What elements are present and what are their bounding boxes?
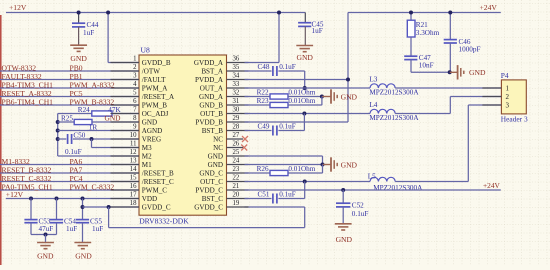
wire net OTW-8332 bbox=[0, 70, 139, 72]
svg-text:OC_ADJ: OC_ADJ bbox=[142, 110, 169, 118]
svg-text:GND_C: GND_C bbox=[199, 170, 223, 178]
wire cap tie bbox=[31, 234, 57, 236]
wire L5 out bbox=[395, 181, 468, 183]
svg-text:OUT_C: OUT_C bbox=[200, 178, 223, 186]
wire C48 riser bbox=[304, 71, 306, 88]
svg-text:0.01Ohm: 0.01Ohm bbox=[288, 89, 315, 97]
svg-text:0.1uF: 0.1uF bbox=[65, 148, 82, 156]
U8 pin 18 (GVDD_C) bbox=[111, 200, 171, 212]
svg-text:3: 3 bbox=[133, 73, 137, 80]
U8 pin 29 (PVDD_B) bbox=[195, 115, 248, 127]
U8 pin 17 (VDD) bbox=[111, 192, 158, 204]
svg-text:1uF: 1uF bbox=[66, 225, 77, 233]
U8 pin 12 (M2) bbox=[111, 149, 153, 161]
U8 pin 6 (PWM_B) bbox=[111, 98, 168, 110]
wire R21 to C47 bbox=[410, 37, 412, 56]
wire C51 riser bbox=[304, 182, 306, 199]
svg-text:L3: L3 bbox=[369, 75, 377, 83]
P4 pin 1 bbox=[482, 85, 509, 93]
svg-text:R25: R25 bbox=[61, 114, 73, 122]
resistor R21 bbox=[407, 20, 439, 37]
U8 pin 10 (VREG) bbox=[111, 132, 162, 144]
wire C44 drop bbox=[78, 13, 80, 24]
svg-text:1uF: 1uF bbox=[92, 225, 103, 233]
junction bbox=[409, 11, 413, 15]
U8 pin 28 (BST_B) bbox=[202, 124, 249, 136]
svg-text:4: 4 bbox=[133, 81, 137, 88]
junction bbox=[44, 233, 48, 237]
svg-text:/RESET_B: /RESET_B bbox=[142, 170, 174, 178]
wire AGND pin9 bbox=[58, 130, 139, 132]
U8 pin 34 (PVDD_A) bbox=[195, 73, 248, 85]
wire C53 drop bbox=[30, 199, 32, 220]
U8 pin 2 (/OTW) bbox=[111, 64, 161, 76]
svg-text:PWM_C: PWM_C bbox=[142, 187, 167, 195]
svg-text:GND: GND bbox=[336, 235, 353, 244]
svg-text:MPZ2012S300A: MPZ2012S300A bbox=[369, 114, 419, 122]
svg-text:PVDD_C: PVDD_C bbox=[195, 187, 223, 195]
wire OUT_A bbox=[245, 87, 371, 89]
svg-text:1: 1 bbox=[133, 56, 136, 63]
svg-text:3.3Ohm: 3.3Ohm bbox=[416, 29, 440, 37]
ground (C55) bbox=[74, 243, 92, 261]
junction bbox=[81, 197, 85, 201]
resistor R26 bbox=[257, 165, 316, 176]
svg-text:GND: GND bbox=[208, 161, 223, 169]
ground GND (pins 23-25) bbox=[331, 157, 358, 171]
wire +24V rail bbox=[348, 12, 501, 14]
junction bbox=[320, 95, 324, 99]
wire PVDD_C bbox=[245, 189, 501, 191]
U8 pin 27 (NC) bbox=[213, 132, 243, 144]
wire net PB4-TIM3_CH1 bbox=[0, 87, 139, 89]
svg-text:GND_B: GND_B bbox=[199, 102, 223, 110]
wire stub to ground bar bbox=[322, 96, 331, 98]
junction bbox=[107, 205, 111, 209]
svg-text:/OTW: /OTW bbox=[142, 68, 160, 76]
svg-text:24: 24 bbox=[233, 158, 240, 165]
U8 pin 8 (GND) bbox=[111, 115, 158, 127]
svg-text:GND: GND bbox=[341, 93, 358, 102]
wire riser pin11 bbox=[91, 139, 93, 148]
svg-text:OUT_A: OUT_A bbox=[200, 85, 224, 93]
svg-text:PWM_C-8332: PWM_C-8332 bbox=[70, 182, 115, 191]
junction bbox=[448, 70, 452, 74]
wire BST_C bbox=[245, 198, 272, 200]
inductor L3 bbox=[369, 75, 419, 96]
svg-text:BST_A: BST_A bbox=[201, 68, 224, 76]
junction bbox=[341, 188, 345, 192]
resistor R25 bbox=[61, 114, 97, 131]
U8 pin 26 (NC) bbox=[213, 141, 243, 153]
svg-text:32: 32 bbox=[233, 90, 240, 97]
svg-text:PB6-TIM4_CH1: PB6-TIM4_CH1 bbox=[2, 97, 54, 106]
wire C55 drop bbox=[82, 199, 84, 220]
wire to P4.3 bbox=[468, 104, 501, 106]
svg-text:33: 33 bbox=[233, 81, 240, 88]
svg-text:MPZ2012S300A: MPZ2012S300A bbox=[369, 89, 419, 97]
P4 pin 2 bbox=[482, 93, 509, 101]
capacitor C55 bbox=[76, 218, 103, 234]
wire R23 riser bbox=[321, 97, 323, 106]
wire C53 down bbox=[30, 223, 32, 235]
wire C47 down bbox=[410, 60, 412, 73]
svg-text:0.1uF: 0.1uF bbox=[279, 123, 296, 131]
capacitor C48 bbox=[258, 63, 296, 76]
svg-text:21: 21 bbox=[233, 183, 240, 190]
capacitor C45 bbox=[298, 20, 324, 35]
wire net RESET_A-8332 bbox=[0, 96, 139, 98]
svg-text:GND: GND bbox=[37, 251, 54, 260]
svg-text:MPZ2012S300A: MPZ2012S300A bbox=[373, 184, 423, 192]
svg-text:R21: R21 bbox=[416, 21, 428, 29]
wire C46 drop bbox=[449, 13, 451, 40]
svg-text:L5: L5 bbox=[368, 173, 376, 181]
wire +24V riser x348 bbox=[347, 13, 349, 123]
junction bbox=[55, 197, 59, 201]
svg-text:Header 3: Header 3 bbox=[501, 114, 528, 123]
junction bbox=[77, 11, 81, 15]
wire pin12 feed bbox=[58, 155, 139, 157]
U8 pin 16 (PWM_C) bbox=[111, 183, 168, 195]
svg-text:2: 2 bbox=[506, 93, 510, 101]
svg-text:18: 18 bbox=[130, 200, 137, 207]
svg-text:31: 31 bbox=[233, 98, 240, 105]
wire R25 left bbox=[58, 121, 74, 123]
svg-text:PVDD_B: PVDD_B bbox=[195, 119, 223, 127]
svg-text:35: 35 bbox=[233, 64, 240, 71]
svg-text:GND: GND bbox=[208, 153, 223, 161]
wire GND_A bbox=[245, 96, 271, 98]
U8 pin 9 (AGND) bbox=[111, 124, 163, 136]
wire stub to ground bar bbox=[450, 71, 458, 73]
svg-text:34: 34 bbox=[233, 73, 240, 80]
wire C45 to ground bbox=[304, 26, 306, 45]
wire C45 drop bbox=[304, 13, 306, 23]
junction bbox=[346, 78, 350, 82]
wire pin11 feed bbox=[92, 147, 140, 149]
wire gnd1 stub bbox=[45, 235, 47, 243]
svg-text:7: 7 bbox=[133, 107, 137, 114]
svg-text:/FAULT: /FAULT bbox=[142, 76, 166, 84]
svg-text:30: 30 bbox=[233, 107, 240, 114]
U8 pin 19 (GVDD_C) bbox=[194, 200, 248, 212]
P4 pin 3 bbox=[482, 102, 509, 110]
svg-text:6: 6 bbox=[133, 98, 137, 105]
U8 pin 31 (GND_B) bbox=[199, 98, 248, 110]
svg-text:26: 26 bbox=[233, 141, 240, 148]
wire C46 down bbox=[449, 43, 451, 72]
junction bbox=[448, 11, 452, 15]
capacitor C50 bbox=[65, 131, 86, 156]
svg-text:C50: C50 bbox=[73, 131, 85, 139]
svg-text:C52: C52 bbox=[352, 201, 364, 209]
wire GVDD_C U rise bbox=[304, 207, 306, 228]
junction bbox=[81, 205, 85, 209]
U8 pin 30 (OUT_B) bbox=[200, 107, 248, 119]
ground (C52) bbox=[335, 224, 353, 244]
capacitor C51 bbox=[258, 191, 296, 204]
svg-text:5: 5 bbox=[133, 90, 137, 97]
wire C50 to pin10 bbox=[73, 138, 139, 140]
svg-text:GVDD_C: GVDD_C bbox=[194, 204, 223, 212]
junction bbox=[56, 120, 60, 124]
U8 pin 20 (BST_C) bbox=[202, 192, 249, 204]
svg-text:15: 15 bbox=[130, 175, 137, 182]
wire L4 out bbox=[395, 113, 450, 115]
wire GND pin24 bbox=[245, 164, 323, 166]
svg-text:C48: C48 bbox=[258, 63, 270, 71]
junction bbox=[303, 180, 307, 184]
wire C55 down bbox=[82, 223, 84, 243]
ground GND (C46/C47) bbox=[458, 65, 486, 79]
wire +12V to VDD bbox=[6, 198, 139, 200]
wire net RESET_B-8332 bbox=[0, 172, 139, 174]
wire to P4.2 bbox=[450, 96, 501, 98]
wire R26 out bbox=[288, 172, 323, 174]
svg-text:10: 10 bbox=[130, 132, 137, 139]
svg-text:AGND: AGND bbox=[142, 127, 163, 135]
svg-text:PWM_B: PWM_B bbox=[142, 102, 167, 110]
svg-text:GND: GND bbox=[341, 161, 358, 170]
U8 pin 11 (M3) bbox=[111, 141, 153, 153]
svg-text:47uF: 47uF bbox=[39, 225, 54, 233]
wire C54 drop bbox=[56, 199, 58, 220]
U8 pin 22 (OUT_C) bbox=[200, 175, 248, 187]
svg-text:VREG: VREG bbox=[142, 136, 161, 144]
capacitor C52 bbox=[336, 201, 368, 218]
resistor R24 bbox=[78, 106, 122, 116]
svg-text:BST_B: BST_B bbox=[202, 127, 224, 135]
U8 pin 32 (GND_A) bbox=[199, 90, 249, 102]
U8 pin 5 (/RESET_A) bbox=[111, 90, 175, 102]
wire C48 out bbox=[278, 70, 304, 72]
wire R23 out bbox=[288, 104, 322, 106]
svg-text:R22: R22 bbox=[257, 89, 269, 97]
svg-text:R24: R24 bbox=[78, 106, 90, 114]
svg-text:1uF: 1uF bbox=[312, 27, 323, 35]
wire C44 to ground bbox=[78, 27, 80, 45]
svg-text:DRV8332-DDK: DRV8332-DDK bbox=[139, 216, 189, 225]
resistor R23 bbox=[257, 97, 316, 108]
svg-text:12: 12 bbox=[130, 149, 137, 156]
svg-text:1uF: 1uF bbox=[83, 29, 94, 37]
svg-text:0.1uF: 0.1uF bbox=[352, 210, 369, 218]
wire GVDD_A bbox=[245, 62, 280, 64]
no-connect X pin 26 bbox=[241, 145, 247, 151]
svg-text:1000pF: 1000pF bbox=[459, 46, 481, 54]
svg-text:29: 29 bbox=[233, 115, 240, 122]
svg-text:+24V: +24V bbox=[483, 181, 501, 190]
svg-text:+12V: +12V bbox=[6, 190, 24, 199]
svg-text:/RESET_A: /RESET_A bbox=[142, 93, 175, 101]
U8 pin 33 (OUT_A) bbox=[200, 81, 249, 93]
svg-text:GND: GND bbox=[70, 54, 87, 63]
svg-text:20: 20 bbox=[233, 192, 240, 199]
wire GVDD_C U drop bbox=[108, 207, 110, 228]
U8 pin 13 (M1) bbox=[111, 158, 153, 170]
U8 pin 35 (BST_A) bbox=[201, 64, 248, 76]
svg-text:U8: U8 bbox=[141, 45, 150, 54]
svg-text:R26: R26 bbox=[257, 165, 269, 173]
wire PVDD_A bbox=[245, 79, 349, 81]
wire C52 drop bbox=[342, 190, 344, 203]
svg-text:P4: P4 bbox=[501, 71, 509, 80]
svg-text:OUT_B: OUT_B bbox=[200, 110, 223, 118]
svg-text:9: 9 bbox=[133, 124, 137, 131]
capacitor C53 bbox=[24, 218, 53, 234]
wire net FAULT-8332 bbox=[0, 79, 139, 81]
U8 pin 23 (GND_C) bbox=[199, 166, 248, 178]
wire BST_A bbox=[245, 70, 272, 72]
wire C49 out bbox=[278, 130, 304, 132]
svg-text:2: 2 bbox=[133, 64, 137, 71]
U8 pin 7 (OC_ADJ) bbox=[111, 107, 169, 119]
U8 pin 4 (PWM_A) bbox=[111, 81, 169, 93]
svg-text:28: 28 bbox=[233, 124, 240, 131]
svg-text:19: 19 bbox=[233, 200, 240, 207]
wire R22 out bbox=[288, 96, 322, 98]
wire L4 riser bbox=[449, 97, 451, 114]
ground (C44) bbox=[70, 45, 87, 63]
wire OUT_C bbox=[245, 181, 371, 183]
svg-text:25: 25 bbox=[233, 149, 240, 156]
svg-text:3: 3 bbox=[506, 102, 510, 110]
capacitor C47 bbox=[404, 54, 433, 69]
resistor R22 bbox=[257, 89, 316, 100]
svg-text:PWM_A: PWM_A bbox=[142, 85, 168, 93]
svg-text:0.01Ohm: 0.01Ohm bbox=[288, 165, 315, 173]
svg-text:14: 14 bbox=[130, 166, 137, 173]
svg-text:GVDD_B: GVDD_B bbox=[142, 59, 171, 67]
svg-text:C51: C51 bbox=[258, 191, 270, 199]
junction bbox=[56, 129, 60, 133]
svg-text:L4: L4 bbox=[369, 101, 377, 109]
junction bbox=[56, 137, 60, 141]
svg-text:+12V: +12V bbox=[9, 3, 27, 12]
wire C51 out bbox=[278, 198, 304, 200]
U8 pin 36 (GVDD_A) bbox=[194, 56, 249, 68]
wire net PA0-TIM5_CH1 bbox=[0, 189, 139, 191]
svg-text:17: 17 bbox=[130, 192, 137, 199]
svg-text:C44: C44 bbox=[87, 21, 99, 29]
svg-text:11: 11 bbox=[130, 141, 137, 148]
svg-text:16: 16 bbox=[130, 183, 137, 190]
wire pin1 feed bbox=[108, 62, 139, 64]
wire C50 left bbox=[58, 138, 67, 140]
wire PVDD_B bbox=[245, 121, 349, 123]
svg-text:22: 22 bbox=[233, 175, 240, 182]
ground GND (R22/R23) bbox=[331, 89, 358, 103]
svg-text:0.1uF: 0.1uF bbox=[279, 191, 296, 199]
no-connect X pin 27 bbox=[242, 136, 248, 142]
wire OUT_B bbox=[245, 113, 371, 115]
capacitor C54 bbox=[50, 218, 77, 234]
svg-text:GND_A: GND_A bbox=[199, 93, 224, 101]
junction bbox=[321, 163, 325, 167]
svg-text:GVDD_C: GVDD_C bbox=[142, 204, 171, 212]
U8 pin 25 (GND) bbox=[208, 149, 249, 161]
U8 pin 24 (GND) bbox=[208, 158, 249, 170]
wire GVDD_C pin18 bbox=[83, 206, 140, 208]
junction bbox=[106, 11, 110, 15]
U8 pin 21 (PVDD_C) bbox=[195, 183, 248, 195]
svg-text:M2: M2 bbox=[142, 153, 152, 161]
svg-text:GVDD_A: GVDD_A bbox=[194, 59, 224, 67]
svg-text:0.1uF: 0.1uF bbox=[279, 63, 296, 71]
wire R24 to pin7 bbox=[112, 113, 139, 115]
wire GND pin25 bbox=[245, 155, 323, 157]
wire GND_B bbox=[245, 104, 271, 106]
wire pin25 riser bbox=[322, 156, 324, 165]
svg-text:36: 36 bbox=[233, 56, 240, 63]
wire +12V rail bbox=[6, 12, 305, 14]
wire GVDD_C U bottom bbox=[109, 227, 305, 229]
svg-text:M1: M1 bbox=[142, 161, 152, 169]
svg-text:M3: M3 bbox=[142, 144, 152, 152]
junction bbox=[302, 112, 306, 116]
svg-text:/RESET_C: /RESET_C bbox=[142, 178, 174, 186]
junction bbox=[303, 86, 307, 90]
svg-text:C49: C49 bbox=[258, 123, 270, 131]
wire C52 down bbox=[342, 207, 344, 224]
wire R21 top bbox=[410, 13, 412, 21]
svg-text:GND: GND bbox=[105, 113, 122, 122]
svg-text:GND: GND bbox=[142, 119, 157, 127]
U8 pin 14 (/RESET_B) bbox=[111, 166, 174, 178]
wire R26 riser bbox=[322, 165, 324, 174]
wire stub to ground bar bbox=[323, 164, 331, 166]
wire L5 riser bbox=[467, 105, 469, 182]
wire C54 down bbox=[56, 223, 58, 235]
capacitor C49 bbox=[258, 123, 296, 136]
svg-text:BST_C: BST_C bbox=[202, 195, 224, 203]
svg-text:PVDD_A: PVDD_A bbox=[195, 76, 224, 84]
svg-text:1: 1 bbox=[506, 85, 510, 93]
svg-text:NC: NC bbox=[213, 136, 223, 144]
svg-text:NC: NC bbox=[213, 144, 223, 152]
connector P4 body bbox=[501, 80, 526, 114]
U8 pin 1 (GVDD_B) bbox=[111, 56, 171, 68]
wire C49 riser bbox=[303, 114, 305, 131]
svg-text:13: 13 bbox=[130, 158, 137, 165]
svg-text:10nF: 10nF bbox=[419, 61, 434, 69]
svg-text:8: 8 bbox=[133, 115, 137, 122]
wire L3 to P4.1 bbox=[395, 87, 501, 89]
svg-text:23: 23 bbox=[233, 166, 240, 173]
wire pin19 feed bbox=[245, 206, 305, 208]
inductor L5 bbox=[368, 173, 423, 193]
wire net M1-8332 bbox=[0, 164, 139, 166]
svg-text:GND: GND bbox=[75, 251, 92, 260]
wire R25 to pin8 bbox=[92, 121, 139, 123]
junction bbox=[29, 197, 33, 201]
svg-text:GND: GND bbox=[469, 68, 486, 77]
wire BST_B bbox=[245, 130, 272, 132]
wire net RESET_C-8332 bbox=[0, 181, 139, 183]
capacitor C44 bbox=[72, 21, 99, 37]
junction bbox=[90, 137, 94, 141]
wire net PB6-TIM4_CH1 bbox=[0, 104, 139, 106]
wire GND_C bbox=[245, 172, 271, 174]
junction bbox=[277, 11, 281, 15]
ground (C45) bbox=[296, 46, 313, 63]
capacitor C46 bbox=[444, 38, 481, 54]
wire R24 left bbox=[58, 113, 92, 115]
svg-text:VDD: VDD bbox=[142, 195, 157, 203]
inductor L4 bbox=[369, 101, 419, 122]
wire C47 to gnd node bbox=[411, 71, 450, 73]
